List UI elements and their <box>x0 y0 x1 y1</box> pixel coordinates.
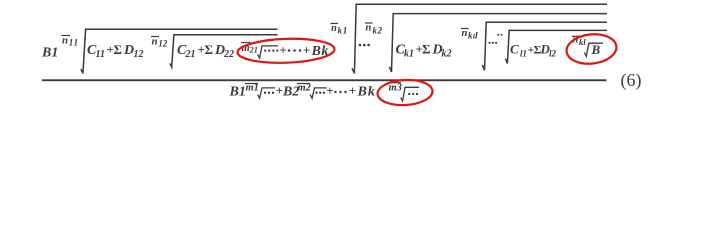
radical R2 <box>170 35 278 67</box>
svg-text:k2: k2 <box>373 26 383 36</box>
radical R3R <box>482 22 607 70</box>
svg-text:C: C <box>510 42 519 57</box>
svg-text:Bk: Bk <box>357 85 376 100</box>
svg-text:kd: kd <box>468 31 478 41</box>
svg-text:l1: l1 <box>520 49 527 59</box>
svg-text:+: + <box>326 83 333 98</box>
svg-text:11: 11 <box>69 38 79 48</box>
red ellipse 1 <box>237 37 335 64</box>
svg-text:+: + <box>349 83 356 98</box>
dots inside R3R <box>488 42 497 44</box>
denominator radical d2 <box>310 88 326 98</box>
mid dots denominator <box>334 91 346 93</box>
svg-text:m3: m3 <box>389 83 402 94</box>
svg-text:11: 11 <box>96 49 105 60</box>
svg-text:n: n <box>62 35 68 47</box>
svg-text:12: 12 <box>134 49 144 60</box>
svg-text:+: + <box>303 44 310 58</box>
red ellipse 2 <box>565 32 618 66</box>
svg-text:n: n <box>366 23 372 34</box>
svg-text:(6): (6) <box>621 70 642 91</box>
svg-text:Σ: Σ <box>205 42 214 57</box>
svg-text:k1: k1 <box>404 49 414 60</box>
svg-text:B1: B1 <box>229 85 246 100</box>
dots d3 <box>408 93 418 95</box>
svg-text:n: n <box>331 23 337 34</box>
svg-text:12: 12 <box>158 39 168 49</box>
dots index of R4R <box>497 34 502 36</box>
svg-text:k2: k2 <box>442 49 452 60</box>
svg-text:D: D <box>123 43 134 58</box>
tall radical R1R <box>352 4 607 73</box>
dots d1 <box>264 92 274 94</box>
small radical in ellipse1 <box>258 46 278 58</box>
svg-text:m2: m2 <box>298 83 312 94</box>
small radical in ellipse2 <box>584 43 603 56</box>
dots after R1R <box>359 44 370 47</box>
svg-text:21: 21 <box>185 49 196 60</box>
red ellipse 3 <box>377 79 433 107</box>
svg-text:Σ: Σ <box>114 42 123 57</box>
fraction bar <box>42 79 607 81</box>
denominator radical d3 <box>401 87 419 101</box>
radical R4R <box>505 30 607 63</box>
svg-text:kl: kl <box>579 37 586 47</box>
mid dots <box>288 49 302 52</box>
dots d2 <box>315 92 325 94</box>
radical R1 <box>81 29 278 73</box>
svg-text:k1: k1 <box>338 26 349 36</box>
svg-text:n: n <box>152 36 158 48</box>
svg-text:22: 22 <box>223 49 234 60</box>
svg-text:l2: l2 <box>549 49 557 59</box>
svg-text:+: + <box>276 83 283 98</box>
svg-text:+: + <box>280 44 287 58</box>
svg-text:B1: B1 <box>41 46 58 61</box>
radical R2R <box>389 14 607 72</box>
svg-text:n: n <box>462 28 468 39</box>
svg-text:Σ: Σ <box>422 42 431 57</box>
denominator radical d1 <box>258 88 275 98</box>
svg-text:m1: m1 <box>246 83 259 94</box>
dots under radical <box>264 50 278 52</box>
svg-text:21: 21 <box>249 45 259 55</box>
svg-text:B: B <box>591 42 601 57</box>
